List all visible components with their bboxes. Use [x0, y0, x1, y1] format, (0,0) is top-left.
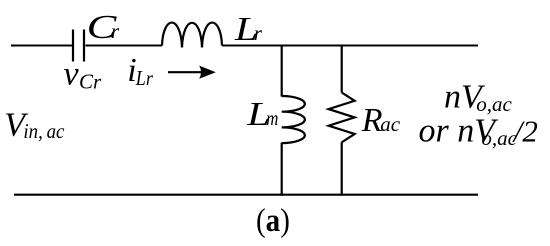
svg-text:in, ac: in, ac	[23, 120, 64, 143]
svg-text:Cr: Cr	[79, 69, 102, 93]
wire bottom rail	[14, 194, 478, 196]
current arrow iLr	[168, 66, 216, 79]
label iLr	[127, 52, 153, 90]
svg-text:/2: /2	[512, 114, 538, 149]
label Lm	[246, 96, 278, 133]
label Vin,ac	[4, 106, 64, 143]
wire Rac branch bottom	[341, 142, 343, 195]
label or nVo,ac/2	[419, 113, 538, 150]
label Rac	[361, 102, 401, 139]
label vCr	[64, 56, 103, 94]
wire top rail left segment	[11, 45, 73, 47]
svg-text:r: r	[111, 19, 120, 43]
inductor Lm	[282, 96, 305, 143]
label Cr	[87, 8, 120, 46]
caption (a)	[256, 201, 290, 238]
svg-text:r: r	[254, 21, 263, 45]
resistor Rac	[329, 93, 355, 143]
wire top rail middle segment	[86, 45, 163, 47]
svg-text:m: m	[266, 107, 278, 130]
svg-text:(a): (a)	[256, 201, 290, 238]
inductor Lr	[162, 23, 222, 48]
svg-text:v: v	[64, 56, 80, 93]
svg-text:Lr: Lr	[135, 68, 153, 91]
svg-text:o,ac: o,ac	[481, 126, 517, 150]
wire Lm branch top	[281, 45, 283, 97]
label Lr	[234, 11, 263, 48]
wire Rac branch top	[341, 45, 343, 93]
svg-text:ac: ac	[380, 112, 401, 136]
wire Lm branch bottom	[281, 143, 283, 196]
label nVo,ac	[444, 79, 513, 117]
wire top rail right segment	[222, 45, 478, 47]
capacitor Cr	[73, 30, 84, 62]
